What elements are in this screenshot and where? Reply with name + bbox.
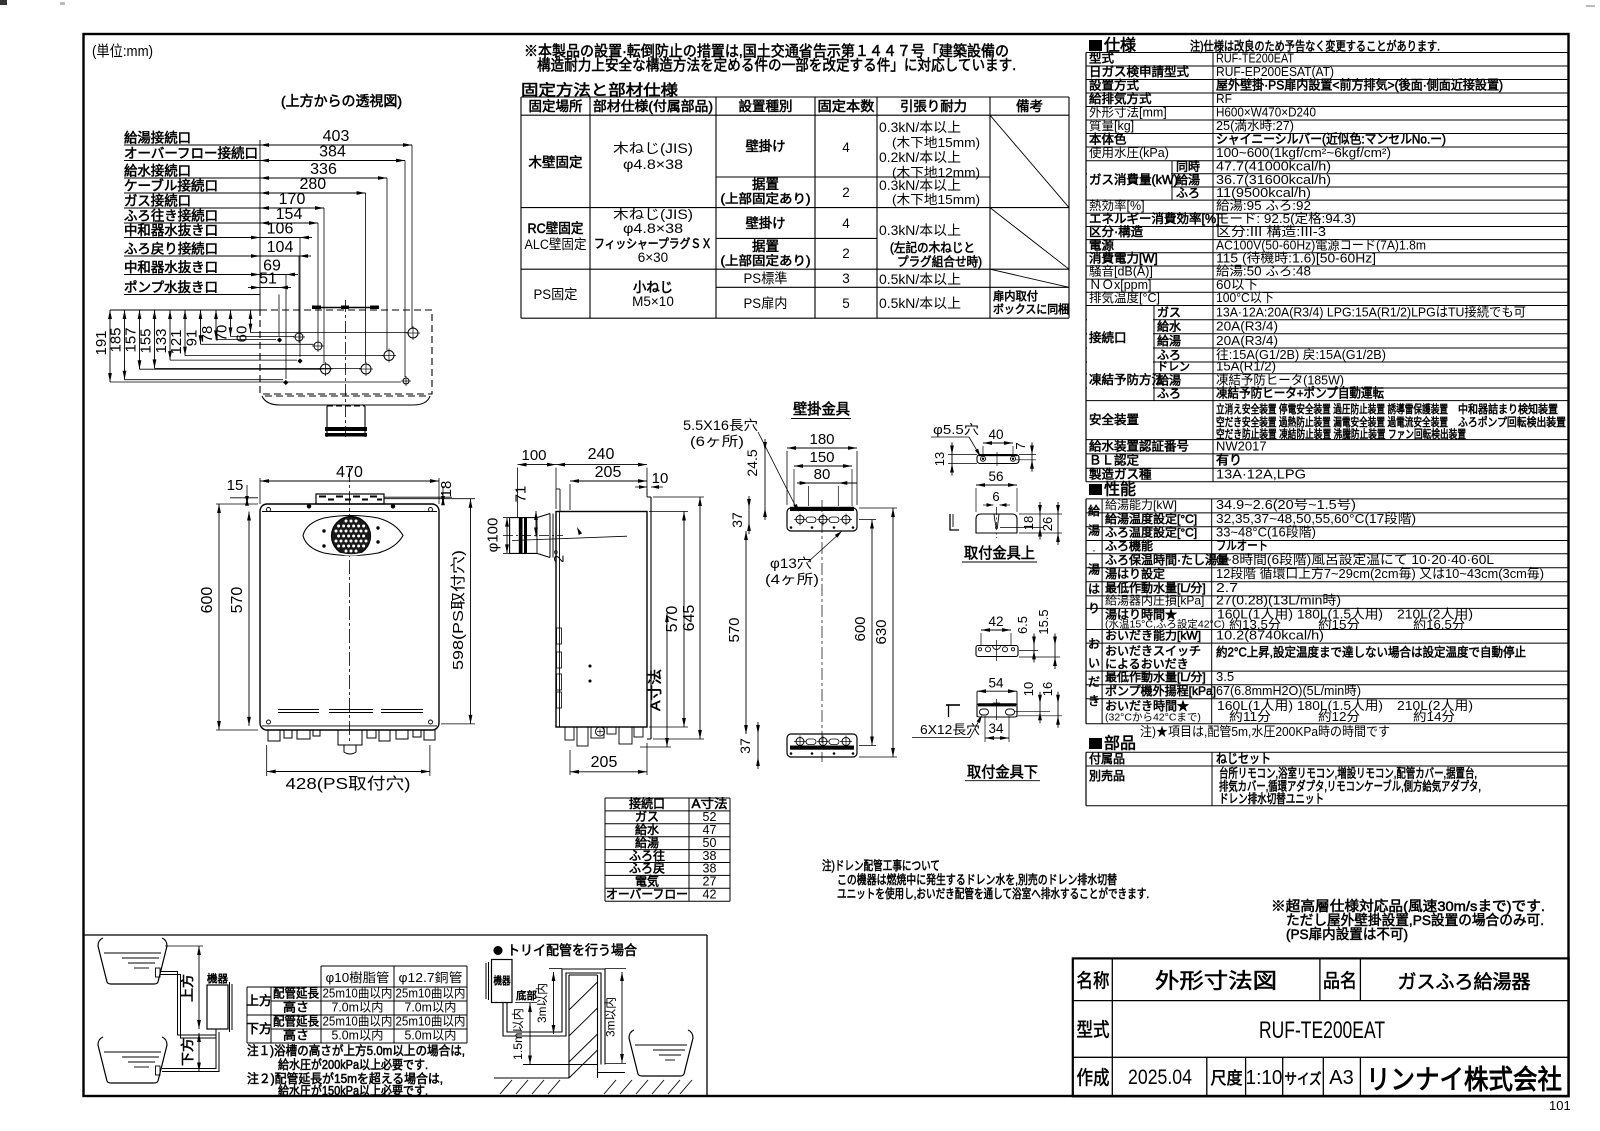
svg-text:600: 600: [852, 616, 869, 641]
svg-text:5: 5: [842, 296, 850, 311]
side view dim 645: [699, 497, 701, 739]
svg-text:壁掛金具: 壁掛金具: [793, 401, 850, 418]
bathtub: [98, 938, 167, 984]
svg-text:34.9~2.6(20号~1.5号): 34.9~2.6(20号~1.5号): [1216, 497, 1356, 512]
dim 下方: [198, 1033, 200, 1072]
front view top screws: [307, 504, 311, 508]
svg-text:給湯: 給湯: [1157, 334, 1181, 348]
svg-text:給: 給: [1088, 504, 1100, 518]
svg-text:固定本数: 固定本数: [818, 99, 876, 114]
svg-text:5.0m以内: 5.0m以内: [332, 1029, 384, 1043]
svg-text:3: 3: [842, 271, 850, 286]
svg-text:木壁固定: 木壁固定: [529, 155, 583, 170]
svg-text:·: ·: [1092, 543, 1096, 557]
svg-text:(32°Cから42°Cまで): (32°Cから42°Cまで): [1105, 712, 1201, 724]
svg-text:PS標準: PS標準: [744, 271, 788, 286]
svg-text:約11分: 約11分: [1229, 709, 1271, 724]
svg-text:り: り: [1088, 602, 1100, 616]
fitting strap dim 40: [983, 442, 1013, 444]
svg-text:φ4.8×38: φ4.8×38: [623, 157, 683, 172]
svg-text:設置種別: 設置種別: [739, 99, 793, 114]
svg-text:0.3kN/本以上: 0.3kN/本以上: [879, 120, 961, 135]
top view centerline: [345, 300, 347, 437]
svg-text:0.3kN/本以上: 0.3kN/本以上: [879, 223, 961, 238]
torii dim 1.5m以内: [529, 1003, 531, 1065]
svg-text:13: 13: [932, 452, 947, 466]
svg-text:67(6.8mmH2O)(5L/min時): 67(6.8mmH2O)(5L/min時): [1216, 683, 1361, 698]
piping left diagram: [156, 968, 161, 977]
svg-text:ふろ戻: ふろ戻: [629, 862, 665, 876]
svg-text:空だき安全装置 過熱防止装置 漏電安全装置 過電流安全装置: 空だき安全装置 過熱防止装置 漏電安全装置 過電流安全装置: [1216, 415, 1448, 429]
svg-text:180: 180: [809, 431, 834, 448]
svg-text:給湯能力[kW]: 給湯能力[kW]: [1105, 498, 1177, 512]
svg-text:47: 47: [703, 823, 717, 837]
side view exhaust pipe: [509, 518, 511, 554]
svg-text:備考: 備考: [1016, 99, 1043, 114]
svg-text:18: 18: [438, 481, 455, 498]
top view dim 106: [260, 237, 300, 239]
svg-text:約2°C上昇,設定温度まで達しない場合は設定温度で自動停止: 約2°C上昇,設定温度まで達しない場合は設定温度で自動停止: [1216, 645, 1526, 660]
svg-text:オーバーフロー: オーバーフロー: [606, 888, 688, 902]
svg-text:1.5m以内: 1.5m以内: [511, 1008, 525, 1060]
svg-text:155: 155: [138, 328, 155, 353]
svg-text:設置方式: 設置方式: [1089, 78, 1140, 93]
svg-text:34: 34: [988, 721, 1004, 736]
svg-text:42: 42: [703, 888, 717, 902]
svg-text:約15分: 約15分: [1318, 617, 1360, 632]
svg-text:25m10曲以内: 25m10曲以内: [396, 1015, 466, 1029]
svg-text:ふろ温度設定[°C]: ふろ温度設定[°C]: [1105, 525, 1197, 540]
svg-text:だ: だ: [1088, 675, 1100, 689]
side view dim 570: [683, 512, 685, 728]
svg-text:ポンプ水抜き口: ポンプ水抜き口: [124, 280, 218, 295]
svg-text:100: 100: [521, 447, 546, 464]
top view wall bracket line: [312, 307, 379, 309]
svg-text:20A(R3/4): 20A(R3/4): [1216, 319, 1278, 334]
svg-text:71: 71: [513, 486, 530, 503]
svg-text:0.3kN/本以上: 0.3kN/本以上: [879, 178, 961, 193]
svg-text:尺度: 尺度: [1211, 1069, 1243, 1088]
unit 機器 (left diagram): [207, 985, 228, 1029]
top view vertical dim 185: [124, 310, 126, 380]
svg-text:外形寸法図: 外形寸法図: [1155, 970, 1277, 993]
svg-text:ボックスに同梱: ボックスに同梱: [993, 302, 1069, 316]
performance table heading: [1089, 484, 1102, 495]
svg-text:10.2(8740kcal/h): 10.2(8740kcal/h): [1216, 628, 1324, 643]
top view vertical dim 133: [169, 310, 171, 360]
fixing method table: [521, 96, 1069, 98]
svg-text:注１)浴槽の高さが上方5.0m以上の場合は,: 注１)浴槽の高さが上方5.0m以上の場合は,: [247, 1043, 465, 1058]
front view bottom fittings: [268, 730, 280, 741]
svg-text:別売品: 別売品: [1089, 768, 1125, 783]
svg-text:取付金具下: 取付金具下: [967, 764, 1038, 781]
top view leader: [386, 178, 388, 350]
svg-text:(木下地15mm): (木下地15mm): [892, 135, 980, 150]
top view vertical dim 70: [230, 310, 232, 336]
svg-text:100°C以下: 100°C以下: [1216, 290, 1274, 305]
top view vertical dim 155: [154, 310, 156, 368]
front view bottom slots: [278, 710, 319, 713]
svg-text:15A(R1/2): 15A(R1/2): [1216, 359, 1276, 374]
svg-text:20A(R3/4): 20A(R3/4): [1216, 333, 1278, 348]
top view exhaust pipe: [326, 406, 328, 437]
svg-text:121: 121: [168, 329, 185, 354]
svg-text:接続口: 接続口: [1089, 330, 1127, 345]
svg-text:下方: 下方: [180, 1038, 195, 1066]
svg-text:600: 600: [199, 587, 216, 614]
svg-text:ガス接続口: ガス接続口: [124, 193, 191, 209]
svg-text:ふろポンプ回転検出装置: ふろポンプ回転検出装置: [1458, 415, 1566, 429]
svg-text:製造ガス種: 製造ガス種: [1089, 467, 1152, 481]
top view dim 384: [260, 160, 405, 162]
svg-text:中和器詰まり検知装置: 中和器詰まり検知装置: [1458, 402, 1558, 416]
svg-text:ガス: ガス: [635, 810, 659, 824]
svg-text:φ10樹脂管: φ10樹脂管: [326, 970, 390, 985]
svg-text:PS固定: PS固定: [534, 287, 578, 302]
svg-text:12段階 循環口上方7~29cm(2cm毎) 又は10~: 12段階 循環口上方7~29cm(2cm毎) 又は10~43cm(3cm毎): [1216, 566, 1544, 581]
svg-text:M5×10: M5×10: [632, 294, 674, 309]
svg-text:ふろ往: ふろ往: [629, 848, 665, 863]
svg-text:91: 91: [184, 330, 201, 347]
wall bracket dim 150: [794, 465, 852, 467]
svg-text:オーバーフロー接続口: オーバーフロー接続口: [124, 145, 258, 161]
svg-text:品名: 品名: [1323, 970, 1357, 992]
svg-text:A寸法: A寸法: [692, 797, 728, 811]
top view vertical dim 157: [139, 310, 141, 369]
torii pipe: [503, 973, 601, 1065]
svg-text:給湯接続口: 給湯接続口: [124, 130, 191, 146]
side view front flange: [556, 488, 560, 490]
parts table grid: [1086, 751, 1569, 753]
svg-text:サイズ: サイズ: [1285, 1071, 1322, 1088]
svg-text:約14分: 約14分: [1413, 709, 1455, 724]
side view dim 71: [535, 511, 537, 537]
svg-text:50: 50: [703, 836, 717, 850]
svg-text:16: 16: [1040, 682, 1055, 696]
svg-text:プラグ組合せ時): プラグ組合せ時): [897, 254, 982, 269]
svg-text:38: 38: [703, 862, 717, 876]
front view dim 470: [260, 480, 439, 482]
top view leader: [299, 238, 301, 358]
fitting T profile icon: [946, 704, 960, 706]
svg-text:70: 70: [214, 325, 231, 342]
svg-text:トリイ配管を行う場合: トリイ配管を行う場合: [507, 943, 637, 958]
top view leader: [285, 275, 287, 380]
front view dim 570: [248, 512, 250, 726]
svg-text:給水: 給水: [1157, 320, 1181, 334]
svg-text:6X12長穴: 6X12長穴: [920, 722, 980, 737]
svg-text:は: は: [1088, 582, 1100, 596]
svg-text:205: 205: [591, 754, 618, 771]
svg-text:ポンプ機外揚程[kPa]: ポンプ機外揚程[kPa]: [1105, 683, 1216, 698]
top view leader: [317, 223, 319, 341]
top view leader: [404, 161, 406, 378]
fitting lower strap: [976, 646, 1018, 657]
front view top bracket plate: [316, 494, 384, 504]
svg-text:5.0m以内: 5.0m以内: [405, 1029, 457, 1043]
svg-text:機器: 機器: [494, 974, 511, 987]
svg-text:熱効率[%]: 熱効率[%]: [1089, 198, 1145, 213]
svg-text:18: 18: [1021, 516, 1036, 530]
svg-text:区分·構造: 区分·構造: [1089, 225, 1144, 239]
svg-text:扉内取付: 扉内取付: [993, 289, 1038, 303]
svg-text:ドレン排水切替ユニット: ドレン排水切替ユニット: [1219, 792, 1324, 806]
svg-text:排気温度[°C]: 排気温度[°C]: [1089, 290, 1160, 305]
wall bracket dim 570: [745, 531, 747, 734]
svg-text:部品: 部品: [1104, 734, 1136, 753]
svg-text:38: 38: [703, 849, 717, 863]
wall bracket dim 80: [797, 482, 857, 484]
svg-text:(木下地15mm): (木下地15mm): [892, 192, 980, 207]
top view leader: [411, 145, 413, 328]
svg-text:ふろ: ふろ: [1176, 186, 1200, 200]
svg-text:給湯器内圧損[kPa]: 給湯器内圧損[kPa]: [1105, 593, 1204, 608]
top view vertical dim 121: [184, 310, 186, 356]
svg-text:106: 106: [267, 221, 294, 238]
svg-text:ふろ往き接続口: ふろ往き接続口: [124, 208, 218, 224]
svg-text:木ねじ(JIS): 木ねじ(JIS): [613, 141, 693, 156]
unit 機器 (torii diagram): [492, 960, 513, 1003]
svg-text:3m以内: 3m以内: [604, 997, 618, 1037]
svg-text:4: 4: [842, 140, 850, 155]
side view dim φ100: [506, 518, 508, 554]
top view connection ports: [295, 333, 303, 341]
svg-text:6×30: 6×30: [638, 250, 668, 265]
svg-text:湯: 湯: [1088, 524, 1100, 538]
fitting lower part dim 54: [977, 690, 1017, 692]
side view dim 100/240: [518, 464, 648, 466]
svg-text:壁掛け: 壁掛け: [746, 216, 786, 231]
svg-text:25m10曲以内: 25m10曲以内: [323, 1015, 393, 1029]
fitting 取付金具上 dim 56: [976, 484, 1017, 486]
top view dim 69: [260, 274, 286, 276]
svg-text:0~8時間(6段階)風呂設定温にて 10·20·40·60: 0~8時間(6段階)風呂設定温にて 10·20·40·60L: [1216, 552, 1494, 567]
svg-text:立消え安全装置 停電安全装置 過圧防止装置 誘導雷保護装置: 立消え安全装置 停電安全装置 過圧防止装置 誘導雷保護装置: [1216, 402, 1448, 416]
top view dim 280: [260, 192, 366, 194]
svg-text:き: き: [1088, 694, 1100, 708]
wall bracket dim 180: [787, 447, 857, 449]
top view bottom face: [262, 396, 430, 405]
svg-text:作成: 作成: [1077, 1067, 1110, 1089]
bathtub: [98, 1037, 167, 1083]
svg-text:部材仕様(付属部品): 部材仕様(付属部品): [593, 99, 713, 114]
svg-text:い: い: [1088, 656, 1100, 670]
svg-text:注)★項目は,配管5m,水圧200KPa時の時間です: 注)★項目は,配管5m,水圧200KPa時の時間です: [1140, 724, 1390, 739]
fixing table remarks diagonals: [990, 115, 1069, 207]
bathtub: [629, 1030, 693, 1076]
front view dim 600: [218, 504, 220, 730]
A-dimension table: [605, 797, 730, 799]
svg-text:A3: A3: [1329, 1067, 1353, 1089]
fitting 取付金具上 dim 6: [987, 503, 994, 507]
svg-text:ねじセット: ねじセット: [1216, 751, 1271, 766]
svg-text:外形寸法[mm]: 外形寸法[mm]: [1089, 106, 1167, 120]
svg-text:φ4.8×38: φ4.8×38: [623, 221, 683, 236]
front view dim 598(PS取付穴): [470, 499, 472, 724]
svg-text:構造耐力上安全な構造方法を定める件の一部を改定する件」に対応: 構造耐力上安全な構造方法を定める件の一部を改定する件」に対応しています.: [537, 56, 1016, 74]
svg-text:給湯温度設定[°C]: 給湯温度設定[°C]: [1105, 511, 1197, 526]
spec table heading: [1089, 40, 1102, 51]
svg-text:給水接続口: 給水接続口: [124, 163, 191, 179]
svg-text:RUF-TE200EAT: RUF-TE200EAT: [1259, 1017, 1385, 1044]
svg-text:据置: 据置: [752, 239, 779, 254]
svg-text:名称: 名称: [1077, 970, 1110, 992]
svg-text:27(0.28)(13L/min時): 27(0.28)(13L/min時): [1216, 593, 1341, 608]
svg-text:42: 42: [988, 614, 1003, 629]
svg-text:26: 26: [1040, 517, 1055, 531]
svg-text:取付金具上: 取付金具上: [964, 545, 1035, 562]
svg-text:電源: 電源: [1089, 238, 1115, 252]
top view left dim baseline: [110, 309, 260, 311]
svg-text:φ12.7銅管: φ12.7銅管: [399, 970, 463, 985]
side view dim 205 top: [570, 480, 647, 482]
svg-text:15.5: 15.5: [1036, 609, 1051, 634]
svg-text:給水圧が150kPa以上必要です.: 給水圧が150kPa以上必要です.: [278, 1083, 428, 1098]
svg-text:電気: 電気: [635, 874, 659, 889]
torii piping caption: [494, 946, 503, 955]
svg-text:中和器水抜き口: 中和器水抜き口: [124, 223, 218, 238]
svg-text:φ100: φ100: [485, 518, 502, 553]
svg-text:ガス消費量(kW): ガス消費量(kW): [1089, 172, 1178, 187]
svg-text:おいだき能力[kW]: おいだき能力[kW]: [1105, 629, 1201, 643]
fitting lower part: [976, 691, 978, 717]
performance table grid: [1086, 498, 1569, 500]
svg-text:下方: 下方: [246, 1021, 272, 1036]
svg-text:(上部固定あり): (上部固定あり): [721, 253, 811, 268]
torii dim left 3m以内: [549, 968, 562, 970]
svg-text:10: 10: [1021, 682, 1036, 696]
svg-text:ALC壁固定: ALC壁固定: [525, 237, 587, 252]
svg-text:630: 630: [873, 619, 890, 644]
parts table heading: [1089, 738, 1102, 749]
svg-text:(単位:mm): (単位:mm): [92, 43, 153, 60]
svg-text:40: 40: [988, 427, 1003, 442]
svg-text:51: 51: [259, 271, 277, 288]
front view dim 428(PS取付穴): [267, 771, 430, 773]
side view dim 205 bottom: [570, 771, 647, 773]
svg-text:7.0m以内: 7.0m以内: [332, 1001, 384, 1015]
fitting strap φ5.5: [977, 455, 1019, 464]
svg-text:φ13穴: φ13穴: [770, 556, 812, 571]
front view burner emblem: [303, 516, 403, 556]
fitting 取付金具上 plate: [976, 514, 1017, 533]
svg-text:NW2017: NW2017: [1216, 438, 1267, 453]
side view body: [556, 512, 647, 728]
svg-text:428(PS取付穴): 428(PS取付穴): [286, 775, 411, 793]
top view leader: [323, 208, 325, 363]
svg-text:3m以内: 3m以内: [535, 983, 549, 1023]
side view rear mount plate: [647, 496, 651, 498]
svg-text:安全装置: 安全装置: [1089, 412, 1139, 427]
front view screws: [267, 508, 271, 512]
title block: [1073, 958, 1569, 1096]
svg-text:ユニットを使用し,おいだき配管を通して浴室へ排水することがで: ユニットを使用し,おいだき配管を通して浴室へ排水することができます.: [837, 886, 1149, 901]
svg-text:湯: 湯: [1088, 563, 1100, 577]
svg-text:台所リモコン,浴室リモコン,増設リモコン,配管カバー,据置台: 台所リモコン,浴室リモコン,増設リモコン,配管カバー,据置台,: [1219, 766, 1477, 781]
front view body: [260, 504, 439, 730]
svg-text:13A·12A,LPG: 13A·12A,LPG: [1216, 466, 1306, 481]
side view bottom fittings: [565, 727, 574, 740]
svg-text:屋外壁掛·PS扉内設置<前方排気>(後面·側面近接設置): 屋外壁掛·PS扉内設置<前方排気>(後面·側面近接設置): [1216, 78, 1503, 93]
svg-text:6: 6: [992, 489, 999, 504]
svg-text:240: 240: [588, 446, 615, 463]
svg-text:日ガス検申請型式: 日ガス検申請型式: [1089, 65, 1190, 79]
svg-text:ガス: ガス: [1157, 306, 1181, 320]
svg-text:2°: 2°: [551, 549, 567, 562]
svg-text:約16.5分: 約16.5分: [1413, 617, 1465, 632]
svg-text:ふろ戻り接続口: ふろ戻り接続口: [124, 241, 218, 257]
svg-text:この機器は燃焼中に発生するドレン水を,別売のドレン排水切替: この機器は燃焼中に発生するドレン水を,別売のドレン排水切替: [837, 872, 1117, 887]
svg-text:25m10曲以内: 25m10曲以内: [396, 987, 466, 1001]
top view unit outline dashed: [260, 310, 432, 394]
svg-text:54: 54: [988, 676, 1004, 691]
svg-text:3.5: 3.5: [1216, 669, 1234, 684]
svg-text:PS扉内: PS扉内: [744, 296, 788, 311]
svg-text:給水装置認証番号: 給水装置認証番号: [1089, 438, 1189, 453]
svg-text:中和器水抜き口: 中和器水抜き口: [124, 260, 218, 275]
svg-text:A寸法: A寸法: [647, 669, 663, 711]
piping length table: [321, 965, 467, 967]
corner registration marks: [0, 0, 7, 5]
bottom panel box: [84, 934, 708, 936]
svg-text:80: 80: [814, 466, 831, 483]
svg-text:同時: 同時: [1176, 160, 1200, 174]
svg-text:ＢＬ認定: ＢＬ認定: [1089, 453, 1139, 468]
svg-text:(4ヶ所): (4ヶ所): [765, 572, 819, 587]
svg-text:固定場所: 固定場所: [529, 99, 583, 114]
svg-text:6.5: 6.5: [1015, 616, 1030, 634]
fitting L profile icon: [950, 514, 959, 530]
side view vents: [557, 628, 562, 644]
svg-text:本体色: 本体色: [1089, 132, 1127, 147]
svg-text:引張り耐力: 引張り耐力: [900, 99, 967, 114]
svg-text:凍結予防方法: 凍結予防方法: [1089, 372, 1164, 387]
svg-text:25m10曲以内: 25m10曲以内: [323, 987, 393, 1001]
svg-text:小ねじ: 小ねじ: [633, 280, 673, 295]
svg-text:接続口: 接続口: [629, 796, 665, 811]
svg-text:0.5kN/本以上: 0.5kN/本以上: [879, 296, 961, 311]
top view vertical dim 60: [250, 310, 252, 333]
svg-text:給排気方式: 給排気方式: [1089, 91, 1152, 106]
svg-text:φ5.5穴: φ5.5穴: [933, 422, 979, 437]
wall bracket dim 630: [892, 508, 894, 757]
svg-text:給水圧が200kPa以上必要です.: 給水圧が200kPa以上必要です.: [278, 1057, 428, 1072]
top view dim 104: [260, 255, 299, 257]
svg-text:木ねじ(JIS): 木ねじ(JIS): [613, 207, 693, 222]
svg-text:60: 60: [234, 326, 251, 343]
top view vertical dim 78: [215, 310, 217, 339]
top view leader: [365, 193, 367, 363]
svg-text:フルオート: フルオート: [1216, 538, 1268, 553]
svg-text:ふろ機能: ふろ機能: [1105, 538, 1153, 553]
svg-text:104: 104: [267, 239, 294, 256]
svg-text:7.0m以内: 7.0m以内: [405, 1001, 457, 1015]
svg-text:470: 470: [336, 464, 363, 481]
svg-text:37: 37: [737, 738, 753, 754]
top view dim reference line: [259, 140, 261, 310]
svg-text:機器: 機器: [207, 972, 228, 985]
wall bracket centerline: [821, 500, 823, 762]
svg-text:ドレン: ドレン: [1157, 360, 1190, 374]
svg-text:エネルギー消費効率[%]: エネルギー消費効率[%]: [1089, 211, 1220, 226]
svg-text:据置: 据置: [752, 177, 779, 192]
svg-text:型式: 型式: [1077, 1019, 1110, 1041]
svg-text:ふろ保温時間·たし湯量: ふろ保温時間·たし湯量: [1105, 553, 1229, 567]
svg-text:壁掛け: 壁掛け: [746, 139, 786, 154]
svg-text:5.5X16長穴: 5.5X16長穴: [683, 418, 758, 433]
svg-text:403: 403: [323, 128, 350, 145]
svg-text:リンナイ株式会社: リンナイ株式会社: [1366, 1064, 1562, 1095]
